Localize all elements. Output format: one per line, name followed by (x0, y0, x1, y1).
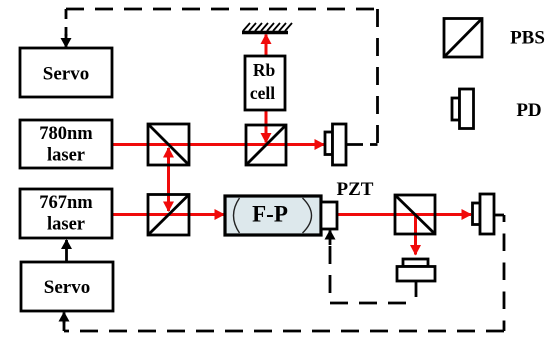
PBS A (780 beam) (148, 124, 189, 165)
wire arrow bottom Servo to 767nm laser (65, 240, 68, 261)
svg-text:laser: laser (47, 215, 85, 235)
svg-text:F-P: F-P (252, 202, 288, 227)
svg-text:laser: laser (47, 146, 85, 166)
svg-text:Servo: Servo (44, 277, 90, 298)
servo box bottom (21, 262, 113, 311)
beam 767nm laser to F-P (112, 213, 224, 216)
780nm laser box (20, 120, 112, 168)
767nm laser box (20, 189, 112, 238)
svg-text:Servo: Servo (43, 64, 89, 85)
wire dashed feedback 767nm: PD to bottom Servo (64, 215, 504, 331)
F-P cavity (225, 196, 321, 235)
beam F-P output to PD2 (337, 213, 471, 216)
beam PBS D down to detector (414, 215, 417, 255)
PD1 photodetector (780 beam) (325, 124, 363, 165)
svg-text:Rb: Rb (253, 60, 276, 80)
Rb cell (245, 56, 285, 110)
wire arrow into PZT (329, 231, 332, 246)
PBS D (right) (395, 195, 435, 234)
svg-text:PD: PD (516, 100, 541, 121)
svg-text:PZT: PZT (337, 179, 374, 200)
servo box top (20, 48, 112, 97)
wire dashed feedback F-P: detector to PZT (330, 246, 414, 303)
legend PD symbol (452, 89, 474, 129)
PD2 photodetector (right) (473, 194, 505, 234)
beam vertical between PBS A and PBS B (167, 148, 170, 180)
beam Rb cell vertical (265, 35, 268, 91)
wire solid stub below detector (415, 281, 418, 297)
svg-text:PBS: PBS (510, 28, 545, 49)
wire dashed feedback 780nm: PD to top Servo (66, 9, 378, 145)
svg-text:767nm: 767nm (39, 193, 93, 213)
svg-text:cell: cell (250, 83, 275, 103)
wire arrow into top Servo (65, 34, 68, 47)
legend PBS symbol (444, 19, 482, 58)
svg-text:780nm: 780nm (39, 124, 93, 144)
PD3 photodetector (below PBS D) (397, 259, 435, 281)
PBS C (Rb beam) (246, 125, 286, 165)
wire arrow into bottom Servo (63, 313, 66, 324)
mirror above Rb cell (242, 23, 292, 33)
beam 780nm laser to PD1 (112, 143, 324, 146)
PZT actuator on F-P (321, 202, 337, 229)
PBS B (767 beam) (148, 195, 189, 236)
